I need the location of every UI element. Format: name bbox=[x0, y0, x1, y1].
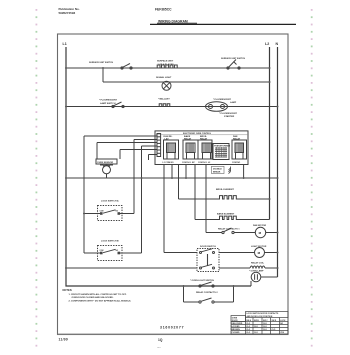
frame border bbox=[58, 34, 289, 335]
relay K2 bbox=[182, 135, 198, 164]
fluorescent lamp switch bbox=[99, 100, 124, 108]
svg-text:SURFACE UNIT SWITCH: SURFACE UNIT SWITCH bbox=[89, 61, 114, 64]
svg-text:M: M bbox=[259, 231, 262, 235]
lock switch A bbox=[84, 200, 134, 221]
part number bbox=[160, 326, 184, 330]
svg-text:COM: COM bbox=[100, 250, 105, 252]
wire vertical x141.5 bbox=[141, 146, 143, 253]
wire EOC input 3 bbox=[97, 142, 157, 144]
svg-text:CLO: CLO bbox=[263, 326, 267, 328]
svg-text:UNLOCKED: UNLOCKED bbox=[232, 323, 243, 325]
header: title bbox=[158, 20, 188, 24]
wire EOC drop 2 bbox=[163, 165, 165, 253]
resistor broil element bbox=[179, 189, 271, 200]
wire distribution row bbox=[66, 177, 278, 179]
svg-text:M: M bbox=[258, 251, 261, 255]
node L1 bbox=[63, 42, 67, 46]
wire EOC input 1 bbox=[84, 135, 157, 137]
wire door row bottom bbox=[66, 267, 197, 269]
svg-text:5995274593: 5995274593 bbox=[59, 11, 76, 15]
L2 bus bbox=[269, 47, 271, 220]
svg-text:* OVEN LAMP: * OVEN LAMP bbox=[249, 270, 264, 273]
svg-text:COM NO: COM NO bbox=[232, 162, 241, 164]
terminal strip bbox=[157, 134, 161, 157]
wire EOC drop 3 bbox=[171, 165, 173, 179]
relay contacts 1 bbox=[206, 227, 255, 233]
svg-text:AND DOOR LOCK POSITION: AND DOOR LOCK POSITION bbox=[247, 315, 273, 318]
svg-text:BAKE ELEMENT: BAKE ELEMENT bbox=[217, 213, 235, 216]
electronic oven control box U1 bbox=[155, 131, 248, 165]
oven lamp bbox=[249, 270, 278, 287]
footer date bbox=[59, 338, 69, 342]
svg-text:CLO: CLO bbox=[246, 329, 250, 331]
svg-text:SW A: SW A bbox=[246, 319, 251, 322]
header rule bbox=[150, 23, 296, 25]
svg-text:SW C: SW C bbox=[263, 320, 268, 322]
svg-text:LAY: LAY bbox=[165, 138, 170, 141]
svg-text:BROKEN: BROKEN bbox=[232, 329, 241, 331]
wire door row top bbox=[164, 252, 197, 254]
svg-text:RELAY CONTACTS 1: RELAY CONTACTS 1 bbox=[218, 227, 240, 230]
wire fluorescent row bbox=[66, 106, 278, 108]
relay K4 bbox=[232, 135, 247, 164]
oven light switch bbox=[190, 280, 214, 287]
svg-text:LIGHT MOTOR: LIGHT MOTOR bbox=[251, 246, 267, 248]
wire vertical x134 bbox=[133, 140, 135, 214]
relay K1 bbox=[163, 136, 179, 164]
svg-text:RELAY: RELAY bbox=[184, 138, 192, 141]
svg-text:LOCK SWITCH MOTOR CONTACTS: LOCK SWITCH MOTOR CONTACTS bbox=[247, 312, 279, 315]
node L2 bbox=[265, 42, 269, 46]
svg-text:L1: L1 bbox=[63, 42, 67, 46]
svg-text:N: N bbox=[276, 42, 279, 46]
svg-text:OVEN DOOR CLOSED AND UNLOCKED.: OVEN DOOR CLOSED AND UNLOCKED. bbox=[72, 296, 114, 299]
notes bbox=[63, 288, 132, 302]
svg-text:LAMP: LAMP bbox=[230, 101, 237, 104]
svg-text:LOCK SWITCH B: LOCK SWITCH B bbox=[101, 241, 119, 243]
wire vertical x148.5 bbox=[148, 155, 150, 161]
svg-text:* FLUORESCENT: * FLUORESCENT bbox=[213, 99, 232, 101]
signal light bbox=[156, 76, 172, 90]
svg-text:11/99: 11/99 bbox=[59, 338, 69, 342]
wire vertical x84 bbox=[83, 136, 85, 253]
svg-text:SURFACE UNIT SWITCH: SURFACE UNIT SWITCH bbox=[221, 57, 246, 60]
header: publication number bbox=[59, 7, 80, 15]
chassis ground bbox=[229, 167, 231, 174]
svg-text:CLO: CLO bbox=[254, 326, 258, 328]
svg-text:CLO: CLO bbox=[254, 332, 258, 334]
footer page bbox=[158, 338, 163, 342]
wire EOC drop 7 bbox=[205, 165, 207, 233]
svg-text:DOUBLE: DOUBLE bbox=[213, 169, 222, 171]
svg-text:SW B: SW B bbox=[254, 320, 259, 322]
svg-text:CLO: CLO bbox=[272, 329, 276, 331]
svg-text:CLO: CLO bbox=[246, 332, 250, 334]
svg-text:RELAY: RELAY bbox=[200, 138, 208, 141]
svg-text:DOOR SWITCH: DOOR SWITCH bbox=[200, 246, 216, 248]
svg-text:DOOR: DOOR bbox=[232, 320, 238, 322]
wire EOC drop 1 bbox=[178, 165, 180, 200]
wire EOC input 2 bbox=[134, 139, 157, 141]
fluorescent lamp bbox=[206, 99, 238, 118]
svg-text:1 OF 4 PLACES: 1 OF 4 PLACES bbox=[158, 63, 175, 66]
svg-text:NOTES:: NOTES: bbox=[63, 288, 73, 292]
perforation dots left bbox=[36, 9, 38, 347]
svg-text:FEF365CC: FEF365CC bbox=[155, 8, 172, 12]
node N bbox=[276, 42, 279, 46]
surface unit switch right bbox=[221, 57, 246, 69]
lock table bbox=[231, 312, 288, 335]
wire EOC input 5 bbox=[120, 149, 157, 151]
lock switch B bbox=[84, 241, 142, 261]
svg-text:COM: COM bbox=[100, 210, 105, 212]
wire switch drop bbox=[102, 68, 104, 82]
door switch bbox=[197, 246, 219, 272]
wire second row bbox=[103, 81, 270, 83]
svg-text:CLO: CLO bbox=[263, 329, 267, 331]
svg-text:BROIL ELEMENT: BROIL ELEMENT bbox=[216, 189, 234, 191]
svg-text:LOCK SWITCH A: LOCK SWITCH A bbox=[101, 200, 119, 203]
oven temp sensor bbox=[96, 143, 120, 179]
svg-text:L1 COM NO: L1 COM NO bbox=[163, 162, 175, 164]
svg-text:OVEN: OVEN bbox=[232, 317, 238, 319]
perforation dots right bbox=[311, 9, 313, 347]
svg-text:RELAY CONTACTS 2: RELAY CONTACTS 2 bbox=[196, 291, 218, 294]
svg-text:COM N.O. L2: COM N.O. L2 bbox=[198, 162, 211, 164]
svg-text:* BALLAST: * BALLAST bbox=[158, 98, 170, 101]
svg-text:CLO: CLO bbox=[263, 323, 267, 325]
svg-text:BREAK: BREAK bbox=[213, 170, 221, 173]
relay coil bbox=[250, 262, 279, 270]
svg-text:LOCKED: LOCKED bbox=[232, 326, 241, 328]
svg-text:NO: NO bbox=[116, 250, 119, 252]
wire EOC drop 6 bbox=[194, 165, 196, 220]
svg-text:NO: NO bbox=[116, 210, 119, 212]
label double break bbox=[212, 166, 225, 173]
svg-text:SURFACE UNIT: SURFACE UNIT bbox=[157, 60, 174, 63]
surface unit switch left bbox=[89, 61, 132, 69]
svg-text:STARTER: STARTER bbox=[224, 115, 235, 118]
header: model number bbox=[155, 8, 172, 12]
svg-text:RELAY COIL: RELAY COIL bbox=[251, 262, 265, 265]
transformer T1 bbox=[213, 144, 231, 160]
resistor ballast bbox=[158, 98, 171, 107]
motor fan bbox=[253, 224, 279, 238]
relay K3 bbox=[198, 136, 212, 164]
motor light bbox=[251, 246, 279, 258]
svg-text:COM N.O. NC: COM N.O. NC bbox=[182, 162, 195, 164]
svg-text:CLO: CLO bbox=[246, 323, 250, 325]
resistor bake element bbox=[195, 213, 270, 220]
wire EOC drop 8 bbox=[243, 165, 245, 179]
svg-text:L2: L2 bbox=[265, 42, 269, 46]
svg-text:.....: ..... bbox=[157, 346, 161, 349]
wire EOC drop 5 bbox=[185, 165, 187, 179]
svg-text:FAN MOTOR: FAN MOTOR bbox=[253, 224, 267, 227]
svg-text:SW D: SW D bbox=[272, 320, 277, 322]
svg-text:1. CIRCUIT SHOWN WITH ALL CONT: 1. CIRCUIT SHOWN WITH ALL CONTROLS SET T… bbox=[69, 293, 127, 296]
resistor surface unit element bbox=[156, 60, 178, 69]
relay contacts 2 loop bbox=[183, 285, 235, 303]
N bus bbox=[277, 47, 279, 277]
svg-text:RELAY: RELAY bbox=[233, 138, 241, 141]
svg-text:CLO: CLO bbox=[246, 326, 250, 328]
svg-text:316002077: 316002077 bbox=[160, 326, 184, 330]
svg-text:2. COMPONENTS WITH * DO NOT AP: 2. COMPONENTS WITH * DO NOT APPEAR IN AL… bbox=[69, 299, 132, 302]
svg-text:* FLUORESCENT: * FLUORESCENT bbox=[99, 100, 118, 102]
svg-text:1Q: 1Q bbox=[158, 338, 163, 342]
wire EOC input 4 bbox=[142, 145, 158, 147]
wire EOC input 6 bbox=[149, 154, 158, 156]
svg-text:OVEN SENSOR: OVEN SENSOR bbox=[97, 162, 113, 164]
wire top row bbox=[66, 67, 270, 69]
L1 bus bbox=[66, 47, 251, 286]
svg-text:SIGNAL LIGHT: SIGNAL LIGHT bbox=[156, 76, 172, 79]
svg-text:LAMP SWITCH: LAMP SWITCH bbox=[100, 102, 116, 105]
svg-text:CLOSED: CLOSED bbox=[232, 332, 241, 334]
svg-text:* FLUORESCENT: * FLUORESCENT bbox=[219, 113, 238, 115]
svg-text:LOCK: LOCK bbox=[280, 320, 286, 322]
